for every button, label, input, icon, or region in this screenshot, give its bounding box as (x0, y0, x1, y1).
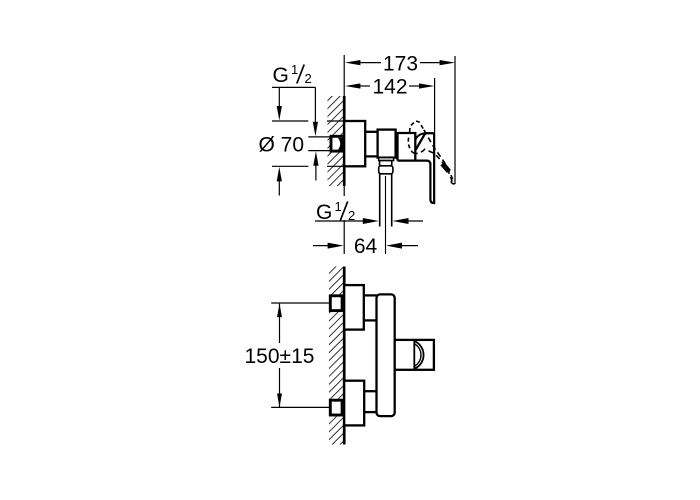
svg-text:150±15: 150±15 (245, 345, 315, 368)
svg-text:2: 2 (305, 71, 312, 86)
svg-text:142: 142 (372, 76, 407, 99)
svg-text:173: 173 (383, 53, 418, 76)
svg-text:1: 1 (335, 199, 342, 214)
svg-text:1: 1 (291, 62, 298, 77)
svg-text:64: 64 (354, 235, 378, 258)
svg-text:Ø 70: Ø 70 (259, 134, 305, 157)
svg-text:G: G (273, 64, 289, 87)
